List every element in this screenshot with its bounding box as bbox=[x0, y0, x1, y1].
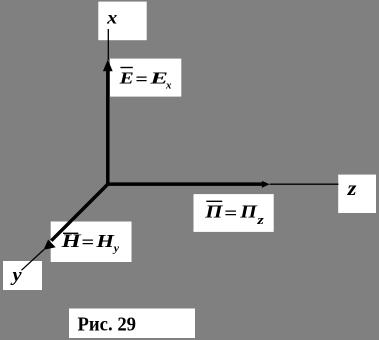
label box Fig 29 bbox=[69, 309, 195, 339]
x axis (thick) bbox=[106, 71, 110, 186]
svg-text:z: z bbox=[347, 177, 358, 200]
svg-text:П: П bbox=[239, 203, 258, 222]
label box P = Pz bbox=[194, 194, 274, 232]
x axis arrowhead bbox=[103, 60, 113, 72]
wire: thin leader from z arrow to z box bbox=[270, 183, 339, 185]
z axis arrowhead bbox=[262, 181, 270, 188]
svg-text:H: H bbox=[60, 231, 81, 251]
svg-text:=: = bbox=[224, 204, 237, 223]
label box y bbox=[3, 261, 42, 290]
value label P = Pz bbox=[204, 201, 264, 227]
label box z bbox=[338, 175, 376, 213]
y axis diagonal (thick) bbox=[51, 184, 108, 241]
value label H = Hy bbox=[60, 231, 119, 255]
svg-text:П: П bbox=[204, 203, 224, 222]
svg-text:=: = bbox=[135, 70, 147, 90]
value label E = Ex bbox=[119, 68, 172, 92]
y axis arrowhead bbox=[44, 240, 56, 250]
wire: thin leader from y arrow to y box bbox=[21, 250, 44, 271]
svg-text:x: x bbox=[165, 81, 172, 91]
svg-text:=: = bbox=[81, 233, 94, 252]
z axis (thick) bbox=[106, 182, 262, 186]
label box H = Hy bbox=[51, 222, 132, 263]
svg-text:H: H bbox=[95, 232, 115, 251]
svg-text:y: y bbox=[10, 264, 21, 285]
label box E = Ex bbox=[110, 59, 181, 97]
wire: thin leader from x box to x-axis arrow bbox=[107, 29, 109, 60]
svg-text:Рис. 29: Рис. 29 bbox=[78, 314, 137, 336]
svg-text:E: E bbox=[119, 69, 134, 88]
svg-text:z: z bbox=[256, 213, 264, 227]
label box x bbox=[98, 2, 146, 41]
svg-text:x: x bbox=[106, 9, 117, 28]
